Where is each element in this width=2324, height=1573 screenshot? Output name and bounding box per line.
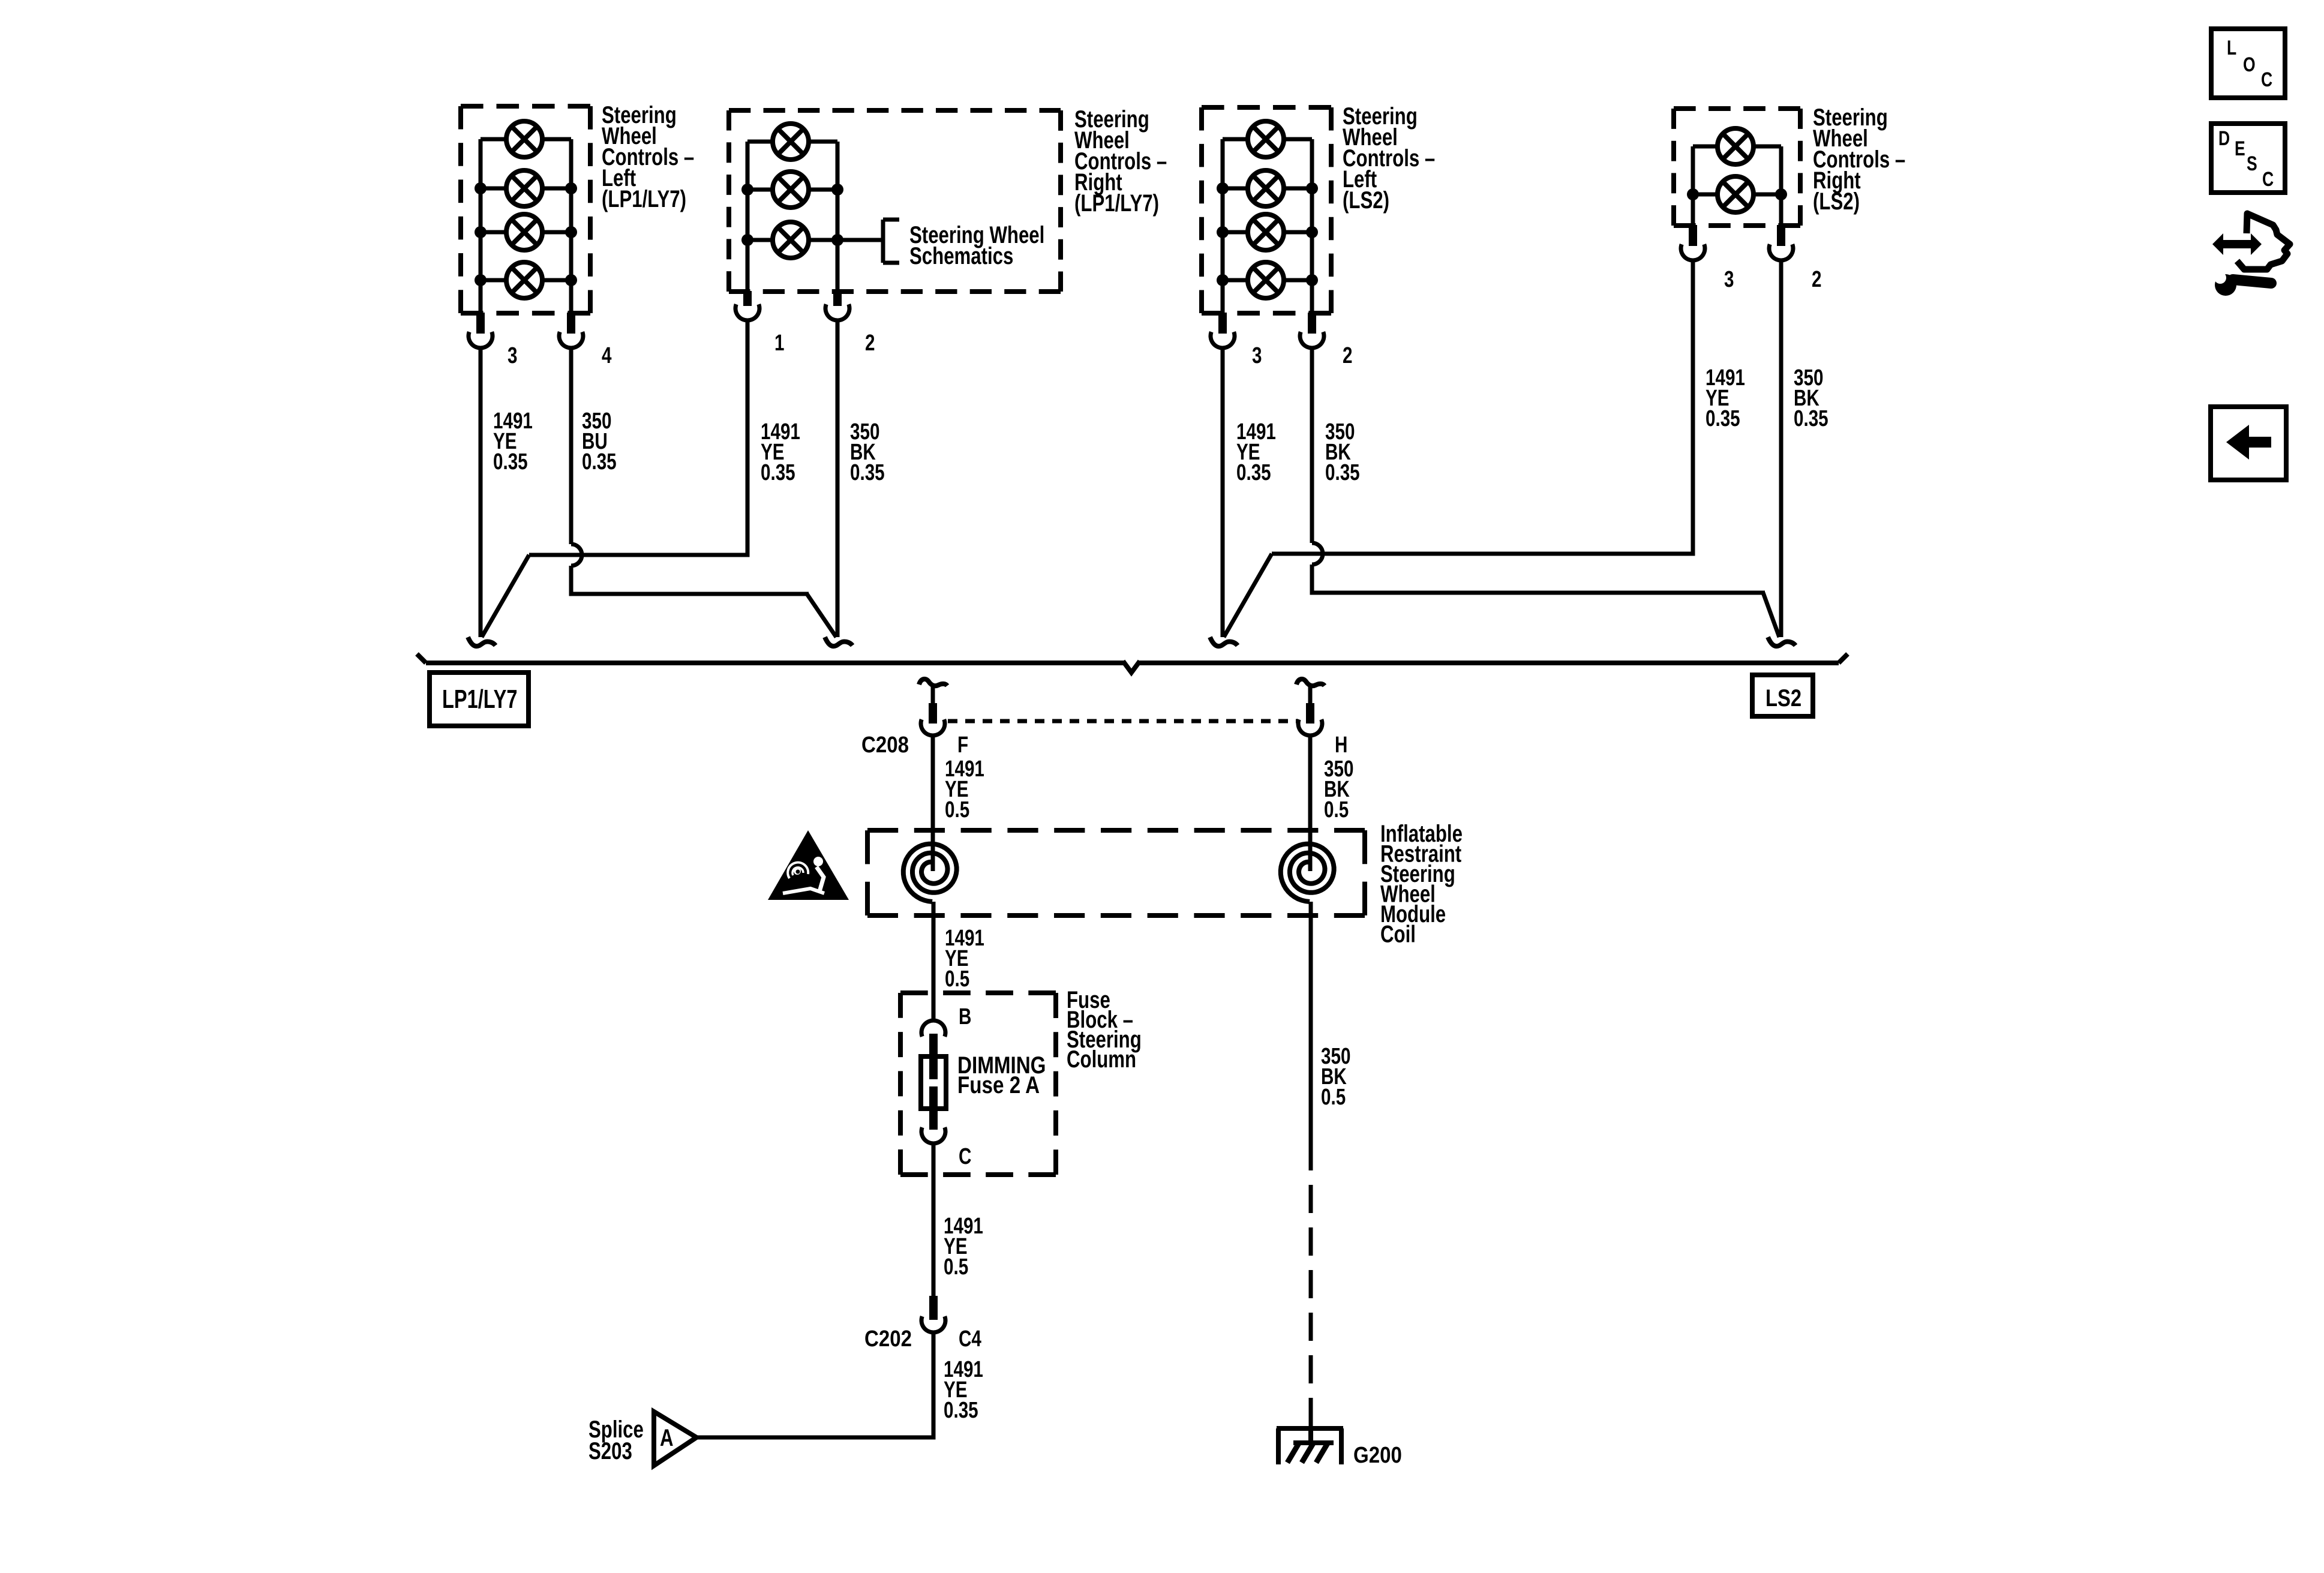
wire 350 BK horizontal run (1312, 591, 1765, 595)
svg-text:3: 3 (1724, 267, 1734, 292)
label Steering Wheel Controls - Right (LP1/LY7) (1074, 106, 1167, 217)
harness brace left span (417, 654, 1124, 663)
wire 1491 YE from S3 pin 3 (1221, 348, 1225, 637)
connector cup S3 pin 3 (1211, 332, 1235, 348)
node S1 row2 right junction (565, 182, 577, 194)
node S1 row4 left junction (475, 274, 487, 286)
svg-text:A: A (660, 1424, 674, 1451)
wire S1 row4 right (541, 278, 571, 283)
wire 1491 YE horizontal to splice (695, 1436, 936, 1440)
wire end arrow (1491 YE LS2) (1210, 637, 1238, 646)
option box LP1/LY7 (430, 673, 529, 726)
wire into right coil (1308, 736, 1313, 871)
wire S4 row2 left (1693, 193, 1719, 197)
wire S4 right rail (1779, 146, 1783, 227)
splice S203 triangle (654, 1412, 696, 1466)
label S4 pin 3 (1724, 267, 1734, 292)
wire 1491 YE diagonal to harness (LS2) (1224, 554, 1272, 637)
svg-text:0.5: 0.5 (1324, 797, 1349, 822)
svg-text:Schematics: Schematics (909, 242, 1013, 269)
wire 350 BK hop over crossing (1312, 543, 1323, 565)
label wire 350 BK 0.5 (H) (1324, 757, 1353, 822)
label G200 (1353, 1442, 1402, 1468)
svg-text:0.35: 0.35 (1706, 406, 1740, 431)
coil L1 (1491 YE side) (903, 844, 957, 902)
lamp DS5 (773, 124, 809, 160)
pin 3 stub (S4) (1689, 225, 1697, 246)
svg-text:0.35: 0.35 (1325, 460, 1360, 485)
label wire 1491 YE 0.5 (F) (945, 757, 984, 822)
coil L2 (350 BK side) (1281, 844, 1334, 902)
svg-text:2: 2 (1812, 267, 1821, 292)
label Steering Wheel Schematics (909, 221, 1044, 269)
harness brace center cusp (1123, 661, 1140, 673)
connector cup pin 3 (469, 332, 493, 348)
ground G200 symbol (1277, 1428, 1343, 1464)
label cavity F (957, 733, 968, 758)
lamp DS1 (506, 121, 542, 157)
label wire 350 BK 0.35 (S3) (1325, 419, 1360, 485)
wire 1491 YE below fuse (932, 1143, 936, 1297)
label wire 1491 YE 0.35 (pin 1) (761, 419, 800, 485)
node S2 row2 right junction (831, 184, 843, 196)
label pin 4 (602, 343, 612, 368)
label Inflatable Restraint Steering Wheel Module Coil (1380, 820, 1463, 947)
wire S1 row1 right (541, 137, 571, 142)
svg-text:(LS2): (LS2) (1813, 188, 1860, 215)
connector cup S4 pin 2 (1769, 244, 1793, 260)
label DIMMING Fuse 2 A (957, 1052, 1046, 1098)
wire S1 right rail (569, 139, 574, 314)
wire C208 H lead (1308, 686, 1313, 704)
wire into left coil (931, 736, 935, 871)
svg-text:C: C (2261, 68, 2272, 91)
svg-text:S203: S203 (588, 1437, 632, 1464)
pin 1 stub (743, 291, 752, 306)
icon box LOC (2211, 29, 2285, 98)
svg-text:0.35: 0.35 (761, 460, 795, 485)
wire S1 row4 left (481, 278, 508, 283)
pin C208 F (929, 703, 937, 724)
wire 1491 YE diagonal to harness (482, 555, 529, 637)
wire S2 row2 left (747, 188, 774, 192)
label LP1/LY7 (442, 685, 517, 714)
svg-text:E: E (2235, 137, 2245, 160)
pin C208 H (1306, 703, 1314, 724)
wire S3 row3 left (1223, 230, 1250, 235)
wire S3 row3 right (1283, 230, 1312, 235)
wire 1491 YE from S4 pin 3 (1691, 260, 1695, 556)
svg-text:C: C (2262, 168, 2274, 191)
icon adjust double arrow (2212, 233, 2262, 255)
connector cup pin 1 (735, 304, 759, 320)
wire S3 row1 right (1283, 137, 1312, 142)
connector cup C208 F (921, 719, 945, 736)
label LOC letters (2227, 37, 2272, 91)
node S1 row4 right junction (565, 274, 577, 286)
wire C208 F lead (931, 686, 935, 704)
icon adjust contour (2237, 214, 2290, 269)
pin cavity C upper (929, 1109, 938, 1130)
node S4 row2 right junction (1775, 188, 1787, 200)
wire 350 BK from pin 2 (836, 320, 840, 637)
connector cup C208 H (1298, 719, 1322, 736)
label LS2 (1765, 685, 1801, 712)
pin cavity B (929, 1034, 938, 1058)
label Steering Wheel Controls - Left (LP1/LY7) (602, 101, 694, 212)
label cavity B (959, 1004, 971, 1029)
svg-text:2: 2 (1343, 343, 1352, 368)
svg-text:0.35: 0.35 (1236, 460, 1271, 485)
connector C208 tie line (dotted) (948, 719, 1297, 724)
node S3 row4 left junction (1217, 274, 1229, 286)
svg-text:B: B (959, 1004, 971, 1029)
icon box back arrow (2211, 407, 2286, 480)
wire S1 row3 left (481, 230, 508, 235)
label Fuse Block - Steering Column (1067, 986, 1142, 1073)
lamp DS13 (1718, 176, 1753, 212)
svg-text:1: 1 (774, 331, 784, 356)
lamp DS4 (506, 262, 542, 298)
svg-text:2: 2 (865, 331, 875, 356)
lamp DS6 (773, 172, 809, 208)
svg-text:(LP1/LY7): (LP1/LY7) (602, 185, 686, 212)
svg-text:0.35: 0.35 (493, 449, 528, 475)
pin 4 stub (567, 313, 575, 334)
wire 350 BK diagonal to harness (1763, 593, 1779, 637)
pin 2 stub (S3) (1308, 313, 1316, 334)
svg-text:LP1/LY7: LP1/LY7 (442, 685, 517, 714)
wire S3 left rail (1221, 139, 1225, 314)
wire S3 row2 left (1223, 187, 1250, 191)
switch assembly S2 dashed outline (729, 110, 1061, 292)
fuse DIMMING 2A element (921, 1056, 946, 1109)
icon box DESC (2211, 124, 2285, 193)
pin 3 stub (S3) (1218, 313, 1227, 334)
label wire 350 BU 0.35 (pin 4) (582, 409, 617, 475)
label wire 350 BK 0.5 (below coil) (1321, 1044, 1350, 1110)
connector cup cavity C (921, 1127, 945, 1143)
node S4 row2 left junction (1687, 188, 1699, 200)
wire S4 row1 right (1752, 145, 1781, 149)
svg-text:0.35: 0.35 (944, 1398, 978, 1423)
connector cup C202 (921, 1316, 945, 1332)
label DESC letters (2218, 127, 2274, 191)
harness brace right span (1139, 654, 1848, 663)
lamp DS9 (1248, 170, 1284, 206)
label A in splice triangle (660, 1424, 674, 1451)
label pin 3 (508, 343, 517, 368)
wire 350 BU diagonal to harness (807, 594, 836, 637)
label wire 1491 YE 0.35 (S4) (1706, 365, 1745, 431)
wire S4 row1 left (1693, 145, 1719, 149)
connector C208 cavity H lead-in squiggle (1296, 679, 1325, 686)
label wire 1491 YE 0.35 (to splice) (944, 1357, 983, 1423)
svg-text:G200: G200 (1353, 1442, 1402, 1468)
switch assembly S1 dashed outline (461, 106, 590, 313)
label wire 350 BK 0.35 (pin 2) (850, 419, 885, 485)
lamp DS11 (1248, 262, 1284, 298)
svg-text:L: L (2227, 37, 2236, 59)
label wire 1491 YE 0.35 (pin 3) (493, 409, 533, 475)
wire 1491 YE horizontal run (LS2) (1272, 552, 1695, 556)
wire S4 left rail (1691, 146, 1695, 227)
wire 350 BK to corner (1310, 565, 1314, 595)
wire 1491 YE down from C202 (932, 1333, 936, 1440)
svg-text:D: D (2218, 127, 2230, 150)
label C202 (864, 1326, 912, 1352)
label S3 pin 2 (1343, 343, 1352, 368)
label cavity H (1335, 733, 1347, 758)
fuse block dashed outline (900, 993, 1056, 1175)
option box LS2 (1752, 675, 1813, 716)
wire S2 right rail (836, 142, 840, 293)
lamp DS2 (506, 170, 542, 206)
label S3 pin 3 (1252, 343, 1262, 368)
node S3 row2 left junction (1217, 182, 1229, 194)
connector cup pin 4 (559, 332, 583, 348)
label S4 pin 2 (1812, 267, 1821, 292)
wire 350 BK dashed to ground (1309, 1142, 1313, 1426)
svg-text:LS2: LS2 (1765, 685, 1801, 712)
wire 350 BK from S3 pin 2 upper (1310, 348, 1314, 543)
wire S1 row2 right (541, 187, 571, 191)
wire to schematics bracket (837, 238, 883, 242)
wire S1 left rail (479, 139, 483, 314)
svg-text:3: 3 (1252, 343, 1262, 368)
wire 350 BU horizontal run (571, 592, 809, 596)
node S1 row3 right junction (565, 226, 577, 238)
lamp DS10 (1248, 214, 1284, 250)
wire 1491 YE from pin 1 (746, 320, 750, 557)
wire 1491 YE from pin 3 (479, 348, 483, 637)
airbag warning triangle (768, 830, 849, 900)
switch assembly S3 dashed outline (1202, 107, 1331, 313)
pin 2 stub (833, 291, 842, 306)
svg-text:Fuse 2 A: Fuse 2 A (957, 1071, 1040, 1098)
lamp DS7 (773, 222, 809, 258)
label wire 1491 YE 0.35 (S3) (1236, 419, 1276, 485)
node S3 row2 right junction (1306, 182, 1318, 194)
lamp DS8 (1248, 121, 1284, 157)
svg-text:4: 4 (602, 343, 612, 368)
lamp DS3 (506, 214, 542, 250)
switch assembly S4 dashed outline (1674, 109, 1800, 226)
label Splice S203 (588, 1416, 644, 1464)
wire S2 row1 right (807, 140, 837, 144)
connector C208 cavity F lead-in squiggle (919, 679, 947, 686)
svg-text:0.5: 0.5 (945, 966, 969, 992)
svg-text:C202: C202 (864, 1326, 912, 1352)
SRS coil dashed outline (867, 830, 1365, 915)
wire S2 row1 left (747, 140, 774, 144)
wire 350 BU from pin 4 upper (569, 348, 574, 544)
pin C202 C4 (929, 1296, 938, 1320)
wire S4 row2 right (1752, 193, 1781, 197)
svg-text:(LS2): (LS2) (1343, 187, 1389, 214)
svg-text:0.5: 0.5 (1321, 1085, 1346, 1110)
wire S2 row3 left (747, 238, 774, 242)
svg-text:(LP1/LY7): (LP1/LY7) (1074, 190, 1159, 217)
bracket Steering Wheel Schematics (883, 220, 899, 263)
wire 350 BU hop over crossing (571, 544, 582, 566)
svg-text:Column: Column (1067, 1046, 1136, 1073)
wire 1491 YE horizontal run (529, 553, 749, 557)
wire S1 row2 left (481, 187, 508, 191)
svg-text:C4: C4 (959, 1326, 981, 1352)
connector cup S4 pin 3 (1681, 244, 1705, 260)
wire S3 row2 right (1283, 187, 1312, 191)
svg-text:3: 3 (508, 343, 517, 368)
svg-text:Coil: Coil (1380, 921, 1416, 948)
node S2 row3 left junction (741, 234, 753, 246)
svg-text:H: H (1335, 733, 1347, 758)
icon back arrow (2226, 425, 2271, 460)
wire 1491 YE into fuse block (932, 993, 936, 1022)
label wire 1491 YE 0.5 (below coil) (945, 926, 984, 992)
wire S3 row4 right (1283, 278, 1312, 283)
svg-text:0.35: 0.35 (1794, 406, 1828, 431)
pin 3 stub (476, 313, 485, 334)
node S1 row3 left junction (475, 226, 487, 238)
wire S3 row1 left (1223, 137, 1250, 142)
node S3 row4 right junction (1306, 274, 1318, 286)
pin 2 stub (S4) (1777, 225, 1785, 246)
wire S3 right rail (1310, 139, 1314, 314)
label pin 2 (865, 331, 875, 356)
wire S2 left rail (746, 142, 750, 293)
wire S2 row3 right (807, 238, 837, 242)
node S2 row2 left junction (741, 184, 753, 196)
node S1 row2 left junction (475, 182, 487, 194)
wire S3 row4 left (1223, 278, 1250, 283)
node S2 row3 right junction (831, 234, 843, 246)
wire S1 row3 right (541, 230, 571, 235)
node S3 row3 left junction (1217, 226, 1229, 238)
connector cup cavity B (921, 1020, 945, 1037)
svg-text:S: S (2247, 152, 2257, 175)
connector cup S3 pin 2 (1300, 332, 1324, 348)
wire end arrow (1491 YE LP1/LY7) (468, 637, 496, 646)
svg-text:C208: C208 (861, 732, 909, 758)
wire 350 BK from S4 pin 2 (1779, 260, 1783, 637)
wire end arrow (350 LP1/LY7) (825, 637, 852, 646)
connector cup pin 2 (825, 304, 849, 320)
label Steering Wheel Controls - Left (LS2) (1343, 103, 1435, 214)
svg-text:0.5: 0.5 (944, 1254, 968, 1280)
label cavity C (959, 1144, 971, 1169)
label wire 350 BK 0.35 (S4) (1794, 365, 1828, 431)
wire 350 BU to corner (569, 566, 574, 596)
label cavity C4 (959, 1326, 981, 1352)
svg-text:F: F (957, 733, 968, 758)
node S3 row3 right junction (1306, 226, 1318, 238)
wire out of right coil (1309, 902, 1313, 1142)
wire S2 row2 right (807, 188, 837, 192)
svg-text:O: O (2243, 53, 2256, 76)
wire out of left coil (932, 902, 936, 995)
label Steering Wheel Controls - Right (LS2) (1813, 104, 1905, 215)
label C208 (861, 732, 909, 758)
svg-text:0.5: 0.5 (945, 797, 969, 822)
wire end arrow (350 BK LS2) (1768, 637, 1795, 646)
lamp DS12 (1718, 128, 1753, 164)
svg-text:C: C (959, 1144, 971, 1169)
label wire 1491 YE 0.5 (below fuse) (944, 1214, 983, 1280)
wire S1 row1 left (481, 137, 508, 142)
svg-text:0.35: 0.35 (582, 449, 617, 475)
label pin 1 (774, 331, 784, 356)
svg-text:0.35: 0.35 (850, 460, 885, 485)
icon adjust wrench (2209, 270, 2271, 296)
